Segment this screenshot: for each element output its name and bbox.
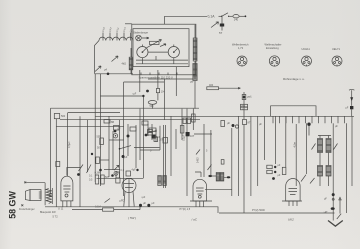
voltage drum 1 bbox=[137, 47, 148, 58]
mid-bottom resistor pair bbox=[95, 175, 104, 184]
speaker magnet bbox=[25, 190, 30, 201]
svg-text:µF: µF bbox=[278, 174, 281, 177]
svg-text:PY(0)·1,5: PY(0)·1,5 bbox=[180, 208, 191, 211]
blobs on B1 bbox=[139, 204, 150, 207]
trimmer circle above T2 bbox=[114, 171, 118, 175]
wire: y=189.3 below coils bbox=[205, 188, 232, 190]
wire: vertical x=244 bbox=[243, 92, 245, 119]
resistor vertical left bbox=[91, 153, 100, 164]
wire: rail B1 y=206.5 bbox=[45, 206, 218, 208]
switch near x=197 low bbox=[208, 165, 212, 171]
svg-text:( 5W ): ( 5W ) bbox=[128, 216, 136, 220]
wire: y=79 horizontal bbox=[148, 78, 193, 80]
svg-text:4µF: 4µF bbox=[132, 169, 137, 172]
wire: vertical x=87.5 bbox=[87, 120, 89, 172]
wire: rail R3a y=112.5 bbox=[68, 112, 120, 114]
twin resistors below R2 bbox=[183, 118, 191, 124]
SECTION: text labels bbox=[7, 15, 348, 222]
earth chevron bbox=[328, 221, 343, 227]
svg-text:PY(2)·5000: PY(2)·5000 bbox=[252, 209, 265, 212]
wire: vertical x=244b bbox=[243, 125, 245, 214]
small cap rect2 bbox=[142, 121, 148, 125]
svg-text:0,1: 0,1 bbox=[89, 175, 93, 178]
osc coil A2 bbox=[326, 139, 331, 153]
svg-text:Röhrenlage v. u.: Röhrenlage v. u. bbox=[283, 77, 305, 81]
wire: mains riser bbox=[164, 16, 166, 24]
electrolytic blob left bbox=[77, 173, 80, 176]
svg-text:400: 400 bbox=[209, 84, 214, 87]
wire: y=140 segment bbox=[109, 139, 124, 141]
small box on x=57.5 bbox=[56, 162, 60, 167]
wire: vertical x=231.8 bbox=[231, 128, 233, 196]
wire: vertical x=204 bbox=[203, 124, 205, 177]
wire: long vertical x=123.6 bbox=[123, 82, 125, 196]
resistor vertical mid bbox=[180, 126, 184, 134]
svg-text:µF: µF bbox=[125, 156, 128, 159]
resistor vertical mid2 bbox=[192, 114, 196, 122]
wire: vertical x=182 bbox=[181, 109, 183, 140]
inner box outline bbox=[133, 29, 189, 67]
resistor above IF coils bbox=[221, 160, 224, 165]
wire: y=160 link bbox=[100, 159, 109, 161]
svg-text:500: 500 bbox=[61, 115, 66, 118]
svg-text:I aC: I aC bbox=[192, 218, 198, 222]
speaker terminal X top bbox=[24, 182, 26, 184]
svg-text:µF: µF bbox=[278, 164, 281, 167]
wire: vertical x=56.3 bbox=[55, 119, 57, 207]
wire: speaker top link bbox=[25, 182, 45, 184]
junction blob bbox=[107, 73, 110, 76]
switch contact right of coils bbox=[334, 144, 338, 150]
tube T4 (rectifier) bbox=[286, 179, 300, 206]
resistor vertical right bbox=[282, 167, 286, 174]
svg-text:5 T2: 5 T2 bbox=[53, 215, 59, 219]
wire: y=150 link bbox=[140, 149, 160, 151]
svg-text:µF: µF bbox=[152, 202, 155, 205]
blob and circle below R2 bbox=[232, 124, 239, 128]
wire: vertical x=257.7 bbox=[257, 116, 259, 186]
wire: coil bottom lead bbox=[194, 61, 196, 79]
svg-text:µF: µF bbox=[259, 123, 262, 126]
blob capacitor bbox=[114, 130, 117, 133]
resistor 400 with arrow bbox=[207, 87, 241, 90]
grid cap T3 bbox=[195, 172, 201, 177]
wire: vertical x=119.5 bbox=[119, 120, 121, 178]
svg-text:5T: 5T bbox=[219, 31, 223, 35]
wire: vertical x=51 bbox=[50, 108, 52, 194]
switch diagonals right of T4 bbox=[301, 175, 315, 184]
svg-text:Einstellung: Einstellung bbox=[266, 46, 279, 50]
electrolytic blob earth bbox=[331, 207, 335, 210]
blob on earth line bbox=[332, 193, 335, 196]
blob bbox=[145, 134, 148, 137]
wire: coil top lead bbox=[194, 25, 196, 38]
cap rect top mid bbox=[114, 126, 120, 131]
resistor vertical mid-bottom bbox=[116, 172, 120, 178]
svg-text:500: 500 bbox=[150, 105, 155, 108]
wire: vertical x=346.5 bbox=[346, 123, 348, 213]
wire: vertical x=275.4 bbox=[274, 116, 276, 164]
svg-text:Wellenschalter: Wellenschalter bbox=[265, 43, 282, 47]
wire: rail R2 y=116.3 bbox=[95, 115, 354, 117]
resistor on x=244 bbox=[242, 95, 246, 100]
tube socket V2 bbox=[269, 56, 279, 66]
rect component x=165 bbox=[163, 138, 168, 144]
wire: shielded pair x=163.5/165.5 bbox=[164, 125, 166, 188]
wire: vertical x=140 bbox=[139, 109, 141, 160]
osc coil B1 bbox=[318, 166, 323, 177]
wire: horizontal y=74 bbox=[95, 73, 134, 75]
svg-text:0,1A: 0,1A bbox=[208, 15, 216, 19]
svg-text:8T: 8T bbox=[248, 122, 251, 125]
svg-text:50T: 50T bbox=[97, 147, 102, 150]
dial lamp bbox=[136, 35, 142, 41]
IF transformer by T2 bbox=[158, 176, 167, 186]
wire: vertical x=306.6 bbox=[306, 123, 308, 174]
resistor ellipse 500 bbox=[148, 101, 157, 105]
outer box outline bbox=[132, 24, 196, 75]
wire: transformer right lead bbox=[51, 188, 53, 204]
switch contact left of coils bbox=[312, 144, 316, 150]
svg-text:50T: 50T bbox=[97, 136, 102, 139]
wire: vertical x=250.9 bbox=[250, 116, 252, 196]
svg-text:µPD: µPD bbox=[120, 199, 125, 202]
svg-text:2M: 2M bbox=[154, 130, 157, 133]
wire: T4 bottom rail bbox=[282, 200, 302, 202]
wire: vertical x=238.6 bbox=[238, 116, 240, 196]
wire: rail R1 y=108.7 bbox=[51, 107, 200, 109]
wire: horizontal y=169.5 bbox=[104, 169, 120, 171]
coil L1b lower right bbox=[193, 64, 197, 81]
wire: long vertical x=100.4 bbox=[99, 74, 101, 186]
svg-text:µF: µF bbox=[346, 107, 349, 110]
svg-text:UEL71: UEL71 bbox=[332, 47, 340, 51]
wire: heater chain left lead bbox=[95, 41, 100, 74]
wire: mains stub left bbox=[125, 23, 132, 25]
black square capacitor x=187 bbox=[186, 132, 190, 136]
svg-text:µF: µF bbox=[335, 125, 338, 128]
switch diagonal earth bbox=[337, 214, 341, 219]
tube T1 (output) bbox=[61, 176, 73, 207]
grid cap T1 bbox=[67, 168, 80, 176]
svg-text:≈µF: ≈µF bbox=[141, 196, 146, 199]
wire: x=139.8 drop bbox=[139, 70, 141, 92]
resistor vertical 50T bbox=[100, 138, 104, 145]
resistor horizontal mid bbox=[149, 128, 156, 131]
svg-text:≈4T: ≈4T bbox=[324, 211, 329, 214]
svg-text:µw: µw bbox=[190, 80, 193, 83]
blob on x=244 bbox=[243, 96, 246, 99]
wire: x=164.4 drop bbox=[163, 79, 165, 120]
svg-text:0,1µF: 0,1µF bbox=[183, 134, 186, 141]
svg-text:µF: µF bbox=[118, 128, 121, 131]
box around antenna input bbox=[271, 106, 316, 117]
antenna symbol bbox=[349, 89, 354, 116]
black capacitor bbox=[152, 135, 156, 139]
resistor vertical 104 bbox=[156, 89, 159, 93]
wire: coil pair links bbox=[320, 153, 329, 187]
blob x=147.5 bbox=[146, 90, 149, 93]
wire: transformer left lead bbox=[44, 183, 46, 206]
heater dropper chain (bumps) bbox=[99, 37, 133, 40]
potentiometer arrow A2 bbox=[95, 66, 101, 72]
stacked rects 2M bbox=[148, 130, 153, 136]
wire: rail B2 y=213 bbox=[219, 212, 335, 214]
small arrow element bbox=[160, 44, 166, 47]
resistor vertical 10T bbox=[154, 137, 158, 142]
svg-text:Freischwinger: Freischwinger bbox=[19, 208, 35, 211]
blob mid-bottom2 bbox=[111, 174, 114, 177]
small cap rect bbox=[130, 127, 136, 131]
wire: rail R3 y=119.7 bbox=[60, 119, 200, 121]
svg-text:µF: µF bbox=[143, 202, 146, 205]
component 6B bbox=[104, 120, 110, 124]
svg-text:U 11: U 11 bbox=[58, 207, 64, 211]
svg-text:10T: 10T bbox=[190, 135, 195, 138]
wire: horizontal y=178.3 bbox=[97, 177, 144, 179]
wire: y=82 horizontal bbox=[124, 81, 165, 83]
resistor pair right bbox=[267, 165, 277, 174]
wire: vertical x=67.5 bbox=[67, 126, 69, 176]
svg-text:140: 140 bbox=[234, 18, 239, 22]
svg-text:UK2: UK2 bbox=[288, 218, 294, 222]
svg-text:50T: 50T bbox=[105, 176, 110, 179]
svg-text:58 GW: 58 GW bbox=[7, 191, 17, 219]
svg-text:UCH11: UCH11 bbox=[302, 47, 311, 51]
wire: vertical x=160 bbox=[159, 126, 161, 150]
wire: to plug bbox=[229, 15, 232, 17]
svg-text:0,3M: 0,3M bbox=[95, 172, 100, 175]
voltage drum 2 bbox=[168, 47, 179, 58]
wire: B1-B2 link bbox=[217, 207, 219, 214]
tube socket V1 bbox=[237, 56, 247, 66]
switch diagonal near T1 pins bbox=[105, 199, 111, 203]
wire: after fuse bbox=[219, 15, 222, 17]
wire: vertical x=148 bbox=[147, 124, 149, 136]
voltage tap ticks under box bbox=[141, 73, 177, 75]
svg-text:Wellenbereich: Wellenbereich bbox=[232, 43, 249, 47]
small circle contact bbox=[332, 198, 334, 200]
tube socket V4 bbox=[332, 56, 342, 66]
svg-text:µ4: µ4 bbox=[104, 69, 107, 72]
wire: vertical x=333.3 bbox=[332, 123, 334, 220]
svg-text:10T: 10T bbox=[159, 139, 164, 142]
svg-text:1453: 1453 bbox=[197, 157, 200, 163]
bandswitch lever bbox=[119, 146, 160, 150]
svg-text:0,5: 0,5 bbox=[89, 179, 93, 182]
coil L2 (left of box) bbox=[129, 48, 133, 74]
wire: vertical x=143.4 bbox=[142, 96, 144, 178]
speaker terminal X bottom bbox=[21, 204, 23, 206]
wire: rail R4 y=126.3 bbox=[56, 125, 123, 127]
wire: vertical x=95.5 bbox=[94, 74, 96, 182]
wire: osc coil top link bbox=[309, 126, 331, 139]
svg-text:µw1: µw1 bbox=[247, 96, 252, 99]
tube socket V3 bbox=[302, 56, 312, 66]
resistor below R2 mid bbox=[221, 121, 225, 127]
svg-text:Spannungswähler 110 220 V: Spannungswähler 110 220 V bbox=[139, 76, 174, 80]
blob top of osc coils bbox=[307, 123, 310, 126]
mains switch bbox=[221, 13, 229, 17]
wire: vertical x=187 bbox=[186, 109, 188, 196]
wire: vertical x=171 bbox=[170, 116, 172, 176]
tube T3 (mixer) bbox=[193, 179, 207, 206]
wire: vertical x=156 bbox=[155, 129, 157, 142]
drum leads bbox=[142, 45, 176, 97]
wire: fuse line bbox=[165, 15, 208, 17]
svg-text:4,5m: 4,5m bbox=[294, 142, 297, 148]
IF coil C2 bbox=[220, 173, 223, 182]
blob right bbox=[272, 177, 275, 180]
switch contact comb bbox=[273, 116, 345, 123]
svg-text:Ω: Ω bbox=[186, 122, 188, 125]
wire: x=157.9 drop bbox=[153, 70, 158, 109]
wire: vertical x=152 bbox=[151, 124, 153, 140]
wire: vertical x=113 bbox=[112, 131, 114, 170]
wire end dot bbox=[239, 15, 244, 17]
trimmer circle bbox=[113, 134, 117, 138]
wire: vertical x=352 bbox=[351, 116, 353, 186]
output transformer coil bbox=[46, 188, 52, 203]
svg-text:Skalenlampe: Skalenlampe bbox=[133, 31, 149, 35]
wire: T3 bottom rail bbox=[190, 200, 212, 202]
blob above T2 right bbox=[136, 169, 138, 171]
switch diagonal mid bbox=[196, 150, 200, 155]
wire: vertical x=285.8 bbox=[285, 116, 287, 167]
svg-text:1,73: 1,73 bbox=[238, 46, 244, 50]
svg-text:VF7: VF7 bbox=[109, 26, 113, 32]
wire: vertical x=136 bbox=[135, 125, 137, 168]
wire: vertical x=80 bbox=[79, 116, 81, 207]
cluster rect mid-bottom bbox=[126, 171, 131, 176]
svg-text:4kΩ: 4kΩ bbox=[122, 63, 127, 66]
component 8T bbox=[243, 120, 247, 125]
svg-text:≈µF: ≈µF bbox=[132, 92, 137, 95]
terminal X on x=50.5 bbox=[49, 195, 51, 197]
heater tap ticks bbox=[103, 33, 131, 41]
tube T2 (round) bbox=[122, 179, 136, 207]
coil L1 (mains dropper) bbox=[193, 38, 197, 61]
wire: vertical x=296.2 bbox=[295, 124, 297, 186]
osc coil A1 bbox=[318, 139, 323, 153]
svg-text:µF: µF bbox=[227, 122, 230, 125]
wire: x=198.6 drop bbox=[194, 81, 196, 109]
wire: vertical x=128 bbox=[127, 124, 129, 156]
svg-text:0,1M: 0,1M bbox=[95, 206, 101, 209]
wire: horizontal y=134 seg bbox=[194, 133, 212, 135]
blob left of IF coils bbox=[208, 175, 212, 177]
svg-text:0,5µF: 0,5µF bbox=[68, 141, 71, 148]
IF coil C1 bbox=[216, 173, 219, 182]
capacitor drop from mains bbox=[221, 16, 223, 23]
inner box wires bbox=[136, 60, 188, 64]
pot arrow mid-bottom bbox=[114, 165, 119, 170]
wire: vertical x=193 bbox=[192, 109, 194, 130]
potentiometer arrow A1 bbox=[112, 56, 119, 62]
switch arrow left bbox=[79, 165, 92, 174]
svg-text:104: 104 bbox=[161, 91, 166, 94]
cap blob mid bbox=[127, 135, 130, 138]
svg-text:µF: µF bbox=[324, 197, 327, 200]
svg-text:VY1: VY1 bbox=[123, 26, 127, 32]
svg-text:6B: 6B bbox=[111, 121, 114, 124]
blob right of IF coils bbox=[227, 176, 231, 178]
cap mid-bottom bbox=[116, 178, 120, 183]
svg-text:VL1: VL1 bbox=[116, 27, 120, 33]
wire: y=96 blob bbox=[142, 95, 144, 97]
speaker frame bbox=[30, 190, 42, 201]
svg-text:Blaupunkt 4W: Blaupunkt 4W bbox=[40, 211, 56, 214]
stacked value boxes bbox=[241, 104, 248, 109]
blob mid-bottom bbox=[99, 169, 102, 172]
cap blob lower mid bbox=[122, 155, 125, 158]
wire: vertical x=67.4 bbox=[66, 113, 68, 127]
resistor bottom bbox=[72, 207, 140, 211]
resistor (urdox) bbox=[150, 41, 160, 44]
wire: vertical x=109 bbox=[108, 116, 110, 177]
osc coil B2 bbox=[326, 166, 331, 177]
arrow to lamp bbox=[142, 37, 149, 39]
voltage selector arrow bbox=[211, 22, 219, 28]
wire: vertical x=210.9 bbox=[210, 130, 212, 176]
wire between drums bbox=[148, 51, 168, 53]
plug component bbox=[233, 15, 239, 18]
wire: horizontal y=96 bbox=[100, 95, 143, 97]
antenna capacitor bbox=[54, 114, 59, 119]
svg-text:VY2: VY2 bbox=[102, 26, 106, 32]
wire: T3 coil links bbox=[212, 176, 227, 177]
wire: vertical x=264.5 bbox=[264, 116, 266, 160]
wire: vertical x=176 bbox=[175, 129, 177, 149]
wire: vertical x=340 with arrow bbox=[339, 197, 341, 213]
arrow through resistor bbox=[147, 40, 162, 48]
